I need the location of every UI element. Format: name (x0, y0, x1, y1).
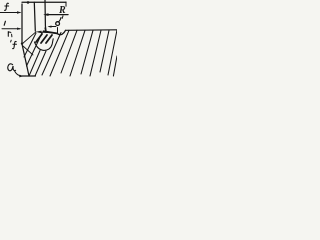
arrowhead f dimension (17, 11, 22, 13)
node at tool tip (21, 42, 23, 44)
hatch line 12 (108, 30, 117, 75)
chip curl arc (35, 39, 54, 51)
leader line under R (45, 14, 68, 16)
workpiece top surface (66, 29, 118, 32)
nose edge vertical (57, 28, 59, 34)
hatch line 2 (27, 33, 43, 66)
hatch line 3 (29, 51, 40, 77)
left dimension line t (2, 28, 20, 30)
small label r under left dimension (7, 32, 9, 37)
groove flank line L (22, 44, 29, 76)
machined surface left segment (44, 31, 58, 33)
hatch line 10 (90, 30, 101, 76)
arrowhead left dimension (17, 28, 22, 30)
flank line to surface (22, 32, 36, 44)
arrowhead feed direction (36, 31, 42, 34)
tool right edge V3 with tick above (45, 0, 46, 31)
angle base line (22, 75, 36, 77)
junction dot on top line (27, 1, 30, 4)
thick deformation stroke 2 (41, 35, 47, 43)
top line of tool holder (22, 1, 66, 3)
feed direction arrow on cut surface (38, 31, 50, 34)
hatch line 6 (50, 30, 69, 76)
hatch line 1 (24, 33, 36, 57)
hatch line 5 (42, 33, 61, 76)
leader arrowhead (19, 75, 23, 78)
hatch line 9 (81, 30, 93, 74)
label delta-prime (56, 22, 60, 26)
label f (feed) (5, 3, 9, 10)
label alpha (8, 64, 16, 71)
thick deformation stroke 3 (46, 35, 52, 43)
dimension line f (0, 12, 20, 14)
short crack line (23, 46, 33, 55)
hatch line 11 (100, 30, 109, 72)
tick at right end of top line (65, 2, 67, 6)
tool nose arc (57, 30, 66, 34)
label f2 with tick (10, 40, 13, 42)
thick deformation stroke 1 (36, 34, 42, 42)
hatch line 13 (113, 56, 117, 76)
nose corner blob (44, 28, 47, 32)
hatch line 7 (61, 30, 77, 73)
hatch line 8 (70, 30, 85, 76)
hatch line 4 (35, 51, 46, 76)
apostrophe mark upper-left (4, 21, 5, 25)
angle leader curve (15, 71, 22, 76)
extension line (left vertical) (21, 4, 23, 44)
arrowhead of R leader (43, 13, 48, 16)
small dash with arrow (delta leader) (49, 26, 56, 28)
tool left edge V2 (34, 2, 35, 31)
